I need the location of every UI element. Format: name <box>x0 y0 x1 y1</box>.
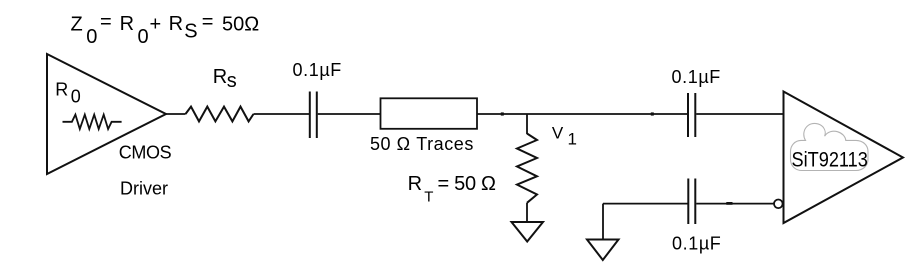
node tick 3 <box>726 202 732 205</box>
capacitor C1 <box>310 92 317 139</box>
wire C1 to box <box>318 113 380 115</box>
equation Z0 = R0 + RS = 50ohm <box>71 11 260 48</box>
label Driver <box>120 178 168 198</box>
wire ground 2 to C3 <box>603 203 688 205</box>
label CMOS <box>119 143 172 163</box>
svg-text:50 Ω Traces: 50 Ω Traces <box>370 134 474 154</box>
resistor RT vertical zigzag <box>517 134 537 203</box>
label 0.1uF C1 <box>293 60 342 80</box>
resistor R0 internal zigzag <box>63 115 122 129</box>
label SiT92113 <box>792 148 868 172</box>
wire C3 to bubble <box>696 203 774 205</box>
wire box to C2 with junction node <box>477 113 687 115</box>
ground 2 <box>587 240 619 261</box>
label RT = 50 ohm <box>408 173 496 206</box>
svg-text:= 50 Ω: = 50 Ω <box>438 173 497 195</box>
svg-text:0.1µF: 0.1µF <box>672 67 721 87</box>
capacitor C2 <box>688 93 695 137</box>
label 0.1uF C3 <box>672 233 721 253</box>
svg-text:S: S <box>184 20 197 42</box>
op-amp U2 receiver triangle <box>784 92 904 224</box>
label 50 ohm Traces <box>370 134 474 154</box>
node tick 2 <box>651 112 654 115</box>
svg-text:=: = <box>100 11 112 33</box>
label Rs <box>213 66 237 92</box>
wire RT to ground 1 <box>526 203 528 222</box>
svg-text:CMOS: CMOS <box>119 143 172 163</box>
transmission line box 50 ohm traces <box>381 98 478 129</box>
op-amp U1 CMOS driver triangle <box>47 54 166 174</box>
svg-text:Driver: Driver <box>120 178 168 198</box>
node junction tick <box>501 112 504 115</box>
cloud blob around part number <box>791 123 869 170</box>
wire C2 to receiver <box>696 113 783 115</box>
svg-text:V: V <box>552 124 564 143</box>
svg-text:SiT92113: SiT92113 <box>792 148 868 172</box>
svg-text:0: 0 <box>86 26 97 48</box>
svg-text:T: T <box>424 189 433 206</box>
wire junction down to RT <box>526 114 528 134</box>
svg-text:0: 0 <box>138 26 149 48</box>
ground 1 <box>512 222 544 242</box>
svg-text:50Ω: 50Ω <box>222 14 259 36</box>
inverting input bubble <box>774 200 783 209</box>
svg-text:R: R <box>120 13 134 35</box>
wire ground 2 up <box>602 204 604 240</box>
svg-text:Z: Z <box>71 13 83 35</box>
svg-text:R: R <box>55 79 68 99</box>
svg-text:R: R <box>213 66 227 88</box>
label V1 <box>552 124 577 149</box>
label 0.1uF C2 <box>672 67 721 87</box>
label R0 <box>55 79 81 106</box>
wire Rs to C1 <box>254 113 310 115</box>
wire apex to Rs <box>165 113 186 115</box>
svg-text:+: + <box>150 13 162 35</box>
svg-text:R: R <box>408 173 422 195</box>
svg-text:0.1µF: 0.1µF <box>293 60 342 80</box>
svg-text:=: = <box>202 11 214 33</box>
svg-text:0.1µF: 0.1µF <box>672 233 721 253</box>
svg-text:0: 0 <box>71 87 81 107</box>
resistor Rs <box>186 107 254 122</box>
svg-text:s: s <box>227 70 237 92</box>
svg-text:1: 1 <box>568 129 577 148</box>
capacitor C3 <box>688 179 695 225</box>
svg-text:R: R <box>169 13 183 35</box>
